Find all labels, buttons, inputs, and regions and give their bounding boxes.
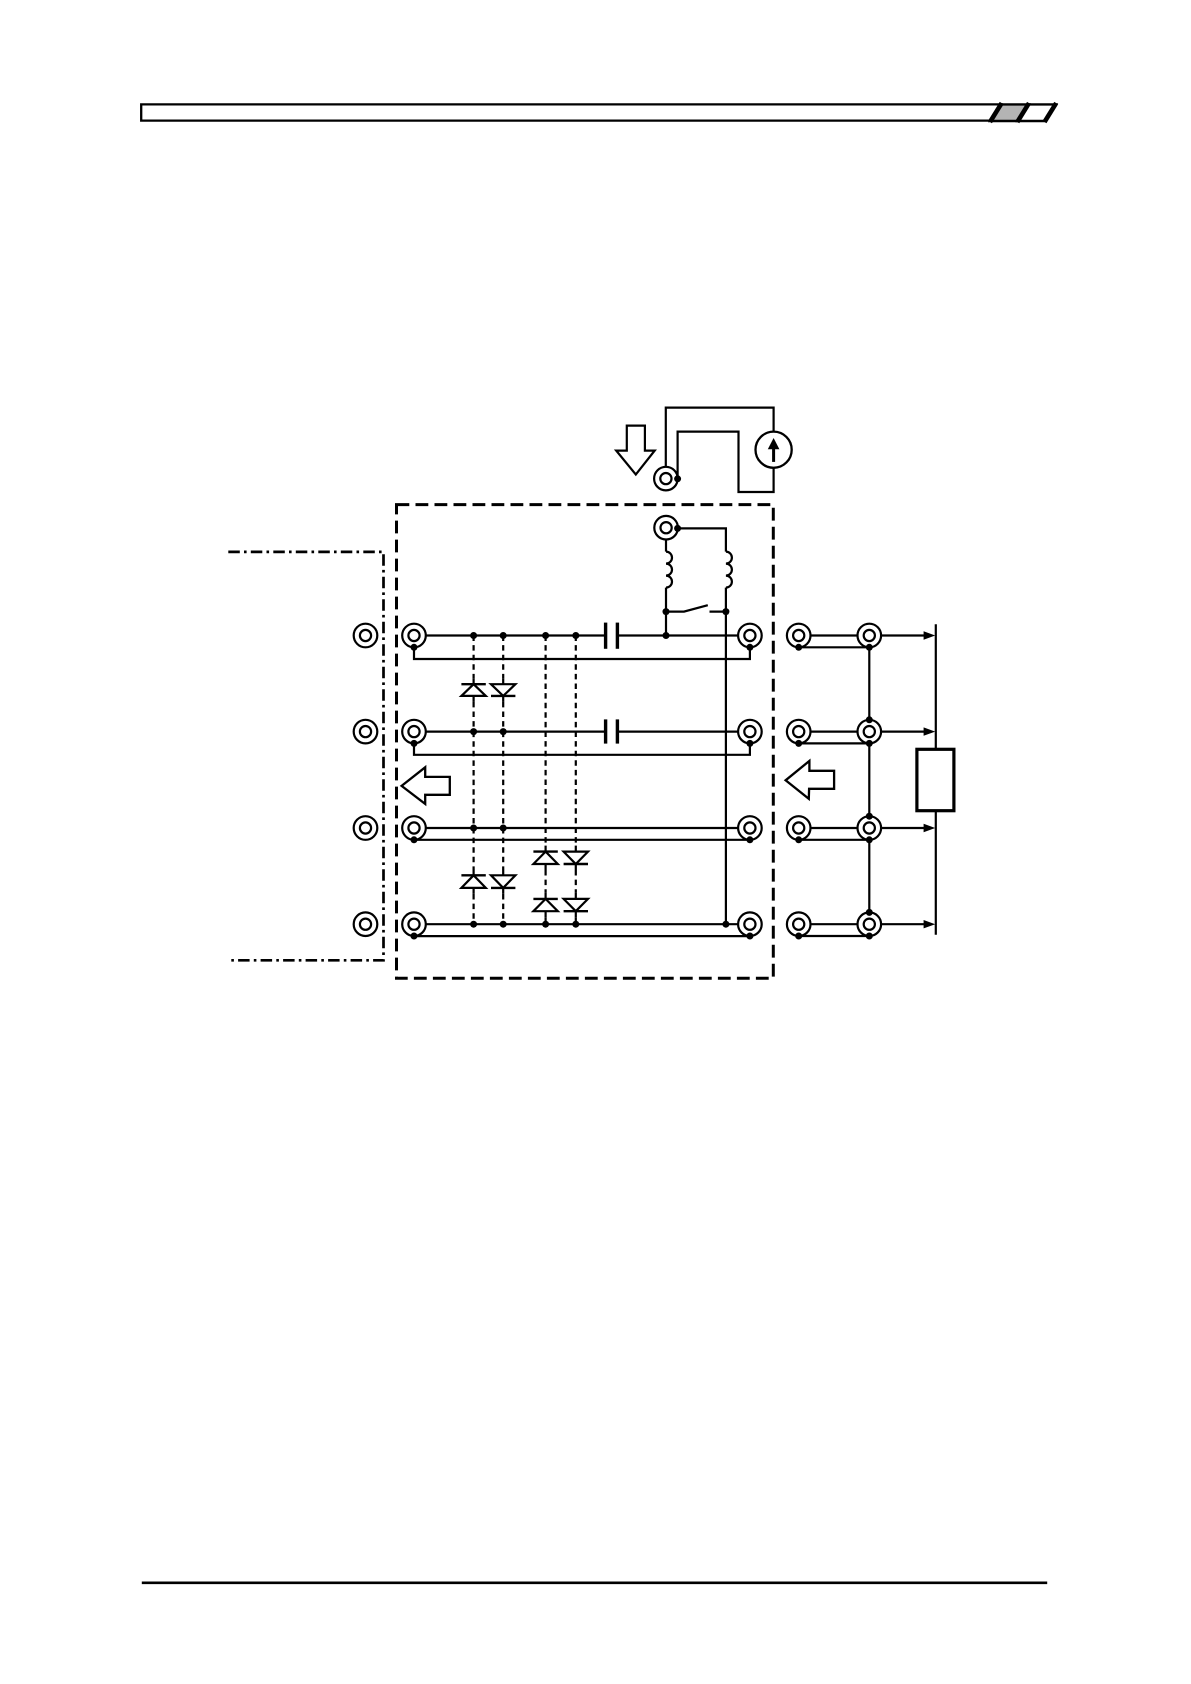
wire rail 2 right segment <box>617 730 750 732</box>
terminal outside column2 row 1 bottom junction <box>866 644 873 651</box>
terminal outside column2 row 4 bottom junction <box>866 933 873 940</box>
switch S1 blade <box>666 605 708 611</box>
terminal outside column2 row 3 bottom junction <box>866 836 873 843</box>
terminal in-box left row 4 bottom junction <box>411 933 418 940</box>
terminal outer-left row 3 <box>354 816 378 840</box>
wire left coil to switch pole <box>665 588 667 612</box>
dashed lead column 1 rail1 to D1a <box>473 636 475 679</box>
terminal outside column2 row 3 <box>858 816 882 840</box>
dashed lead column 4 D4b to rail4 <box>575 917 577 924</box>
wire vertical link rail3-rail4 <box>868 840 870 913</box>
wire terminal dot to right coil top <box>678 528 726 551</box>
terminal outside column2 row 2 bottom junction <box>866 740 873 747</box>
terminal outside column2 top junction <box>866 813 873 820</box>
junction on terminal J0 <box>674 475 681 482</box>
left block arrow (right side) <box>786 761 835 799</box>
wire rail 1 return <box>414 647 750 659</box>
inductor L2 (right winding) <box>726 552 732 588</box>
terminal outside column2 row 1 <box>858 624 882 648</box>
junction rail4 x=546 <box>542 921 549 928</box>
wire rail 2 left segment <box>414 730 606 732</box>
junction rail1 x=474 <box>470 632 477 639</box>
wire outside rail 2 lower link <box>799 742 870 744</box>
wire outer loop (terminal to current source top) <box>666 408 774 468</box>
wire outside rail 2 between terminal columns <box>799 730 870 732</box>
wire bus vertical <box>935 624 937 935</box>
dashed lead column 3 D3a to D3b <box>544 870 546 893</box>
wire outside rail 3 between terminal columns <box>799 827 870 829</box>
arrowhead rail 4 to bus <box>924 920 936 928</box>
junction rail3 x=503 <box>500 825 507 832</box>
arrowhead rail 2 to bus <box>924 727 936 735</box>
terminal in-box right row 1 <box>738 624 762 648</box>
switch pole junction <box>663 608 670 615</box>
terminal outside column2 top junction <box>866 909 873 916</box>
dashed lead column 1 rail2 to rail3 <box>473 732 475 828</box>
footer rule <box>142 1582 1047 1585</box>
wire outside rail 1 lower link <box>799 646 870 648</box>
terminal outer-left row 2 <box>354 720 378 744</box>
junction rail4 x=503 <box>500 921 507 928</box>
junction rail1 transformer tap <box>663 632 670 639</box>
wire right coil to switch contact <box>725 588 727 612</box>
terminal in-box left row 1 <box>402 624 426 648</box>
header slant band 2 <box>1017 103 1029 122</box>
dashed lead column 2 rail1 to D2a <box>502 636 504 679</box>
wire vertical link rail1-rail2 <box>868 647 870 720</box>
terminal outside column1 row 1 bottom junction <box>795 644 802 651</box>
dashed lead column 2 rail2 to rail3 <box>502 732 504 828</box>
down arrow (line side indicator) <box>616 426 655 475</box>
terminal in-box right row 4 bottom junction <box>746 933 753 940</box>
terminal outer-left row 4 <box>354 912 378 936</box>
junction rail4 x=576 <box>572 921 579 928</box>
wire outside rail 4 between terminal columns <box>799 923 870 925</box>
dash-dot boundary line <box>228 552 383 960</box>
wire switch pole to rail 1 <box>665 612 667 636</box>
terminal outside column1 row 3 bottom junction <box>795 836 802 843</box>
wire rail 3 <box>414 827 750 829</box>
terminal in-box right row 3 <box>738 816 762 840</box>
wire in-box terminal to left coil <box>665 539 667 551</box>
wire rail 1 left segment <box>414 634 606 636</box>
diode D1b (up) between rail3 and rail4 <box>461 869 485 894</box>
wire outside rail 1 between terminal columns <box>799 634 870 636</box>
wire vertical link rail2-rail3 <box>868 743 870 816</box>
terminal outside column1 row 4 <box>787 912 811 936</box>
diode D1a (up) between rail1 and rail2 <box>461 678 485 702</box>
dashed lead column 1 D1b to rail4 <box>473 894 475 924</box>
terminal outer-left row 1 <box>354 624 378 648</box>
terminal in-box right row 4 <box>738 912 762 936</box>
terminal outside column2 row 4 <box>858 912 882 936</box>
diode D3a (up) upper stack <box>533 846 557 870</box>
switch contact junction <box>722 608 729 615</box>
current source CS1 <box>756 432 792 468</box>
terminal outside column1 row 2 bottom junction <box>795 740 802 747</box>
wire outside rail 3 lower link <box>799 839 870 841</box>
junction rail4 relay branch <box>722 921 729 928</box>
diode D3b (up) lower stack <box>533 893 557 917</box>
junction rail1 x=576 <box>572 632 579 639</box>
switch S1 contact stub <box>710 610 726 612</box>
dashed module box <box>397 505 774 979</box>
terminal in-box right row 2 <box>738 720 762 744</box>
junction rail1 x=503 <box>500 632 507 639</box>
terminal J5 (module top) <box>654 516 678 540</box>
dashed lead column 2 rail3 to D2b <box>502 828 504 870</box>
wire outside rail 4 lower link <box>799 935 870 937</box>
wire rail 3 return <box>414 839 750 841</box>
dashed lead column 3 rail1 to D3a <box>544 636 546 846</box>
terminal outside column1 row 4 bottom junction <box>795 933 802 940</box>
wire outside rail 2 to bus <box>869 730 927 732</box>
junction rail2 x=503 <box>500 728 507 735</box>
terminal outside column1 row 2 <box>787 720 811 744</box>
capacitor C2 on rail 2 <box>606 719 618 743</box>
left block arrow (inside box) <box>402 767 450 804</box>
diode D2b (down) between rail3 and rail4 <box>491 869 515 894</box>
junction on terminal J5 <box>674 525 681 532</box>
wire rail 4 <box>414 923 750 925</box>
terminal in-box left row 4 <box>402 912 426 936</box>
header gray parallelogram <box>990 104 1029 121</box>
terminal in-box left row 2 <box>402 720 426 744</box>
wire rail 1 right segment <box>617 634 750 636</box>
capacitor C1 on rail 1 <box>606 623 618 649</box>
resistor R1 (termination box) <box>917 749 954 810</box>
header bar <box>141 104 1001 120</box>
dashed lead column 3 D3b to rail4 <box>544 917 546 924</box>
dashed lead column 4 rail1 to D4a <box>575 636 577 846</box>
terminal in-box right row 2 bottom junction <box>746 740 753 747</box>
junction rail3 x=474 <box>470 825 477 832</box>
terminal in-box left row 1 bottom junction <box>411 644 418 651</box>
terminal in-box left row 2 bottom junction <box>411 740 418 747</box>
terminal outside column1 row 3 <box>787 816 811 840</box>
terminal in-box right row 1 bottom junction <box>746 644 753 651</box>
junction rail1 x=546 <box>542 632 549 639</box>
wire outside rail 3 to bus <box>869 827 927 829</box>
wire rail 4 return <box>414 935 750 937</box>
wire inner loop (terminal dot to current source bottom) <box>678 432 774 492</box>
terminal outside column1 row 1 <box>787 624 811 648</box>
header slant band 3 <box>1045 103 1057 122</box>
dashed lead column 1 rail3 to D1b <box>473 828 475 870</box>
header slant band 1 <box>990 103 1002 122</box>
terminal J0 (line input, above box) <box>654 467 678 491</box>
diode D2a (down) between rail1 and rail2 <box>491 678 515 702</box>
wire outside rail 4 to bus <box>869 923 927 925</box>
arrowhead rail 3 to bus <box>924 824 936 832</box>
dashed lead column 2 D2a to rail2 <box>502 702 504 732</box>
dashed lead column 1 D1a to rail2 <box>473 702 475 732</box>
header white parallelogram <box>1018 104 1057 121</box>
diode D4a (down) upper stack <box>564 846 588 870</box>
diode D4b (down) lower stack <box>564 893 588 917</box>
wire rail 2 return <box>414 743 750 754</box>
dashed lead column 4 D4a to D4b <box>575 870 577 893</box>
wire switch contact down to rail 4 <box>725 612 727 925</box>
arrowhead rail 1 to bus <box>924 631 936 639</box>
terminal outside column2 row 2 <box>858 720 882 744</box>
inductor L1 (left winding) <box>666 552 672 588</box>
wire outside rail 1 to bus <box>869 634 927 636</box>
terminal in-box left row 3 <box>402 816 426 840</box>
junction rail4 x=474 <box>470 921 477 928</box>
dashed lead column 2 D2b to rail4 <box>502 894 504 924</box>
terminal in-box right row 3 bottom junction <box>746 836 753 843</box>
junction rail2 x=474 <box>470 728 477 735</box>
terminal in-box left row 3 bottom junction <box>411 836 418 843</box>
terminal outside column2 top junction <box>866 716 873 723</box>
